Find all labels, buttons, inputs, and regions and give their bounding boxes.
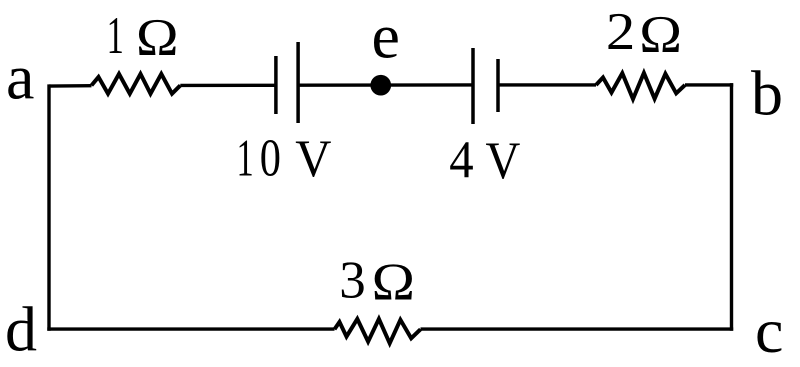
wire: node a to resistor R1	[49, 84, 92, 88]
svg-text:b: b	[751, 58, 783, 129]
svg-text:V: V	[295, 130, 331, 189]
wire: R3 to node c	[421, 327, 734, 330]
svg-text:d: d	[5, 294, 37, 363]
wire: left side a to d	[47, 84, 50, 330]
battery B1 10V short plate (negative)	[274, 56, 278, 114]
svg-text:Ω: Ω	[639, 5, 682, 63]
resistor R1 (1 ohm) zigzag	[92, 74, 181, 94]
wire: R1 to battery B1	[180, 84, 276, 87]
svg-text:1: 1	[237, 128, 254, 187]
svg-text:Ω: Ω	[136, 8, 179, 67]
wire: node d to resistor R3	[47, 327, 334, 330]
svg-text:1: 1	[107, 6, 124, 65]
battery B2 4V short plate (negative)	[496, 59, 500, 112]
node e junction dot	[370, 75, 391, 96]
wire: battery B2 to resistor R2	[498, 83, 596, 86]
resistor R2 (2 ohm) zigzag	[596, 73, 685, 99]
svg-text:e: e	[372, 1, 400, 72]
svg-text:c: c	[755, 295, 783, 362]
battery B2 4V long plate (positive)	[471, 48, 475, 124]
svg-text:2: 2	[606, 3, 635, 62]
wire: battery B1 to battery B2 through node e	[298, 83, 473, 87]
svg-text:0: 0	[260, 129, 281, 188]
svg-text:a: a	[6, 42, 34, 113]
battery B1 10V long plate (positive)	[296, 42, 300, 123]
wire: right side b to c	[730, 83, 733, 331]
wire: R2 to node b	[685, 83, 733, 86]
resistor R3 (3 ohm) zigzag	[335, 319, 421, 343]
svg-text:4: 4	[449, 131, 473, 189]
svg-text:Ω: Ω	[372, 253, 415, 312]
svg-text:3: 3	[339, 251, 366, 309]
svg-text:V: V	[486, 131, 521, 190]
